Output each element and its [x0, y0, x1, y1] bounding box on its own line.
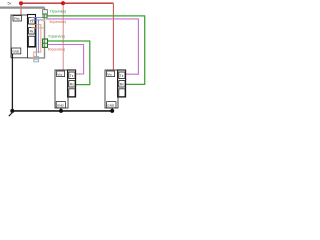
svg-text:Rx: Rx	[70, 83, 74, 87]
U1 pin column	[28, 15, 36, 48]
junction dot (63,3)	[61, 1, 65, 5]
svg-text:Tx: Tx	[70, 74, 74, 78]
wire orange Rx	[32, 25, 41, 60]
junction dot ground left	[10, 109, 14, 113]
pin box Pm (U1 power)	[13, 16, 22, 21]
module U2 body	[55, 70, 68, 108]
pin box empty (U1)	[29, 36, 35, 46]
wire grey bar net	[0, 6, 45, 8]
svg-text:5v(service): 5v(service)	[50, 20, 67, 24]
pin box empty (U2)	[69, 89, 75, 97]
pin box Rx (U3)	[119, 81, 125, 87]
pin box empty (U3)	[119, 89, 125, 97]
wire 5V drop to U3 Vin	[112, 3, 114, 70]
svg-text:Rx: Rx	[30, 30, 34, 34]
wire grey net down segment	[28, 8, 45, 58]
junction dot ground middle	[59, 109, 63, 113]
wire 5V drop to U2 Vcc	[62, 3, 64, 70]
connector J1 yellow pin nub	[43, 19, 46, 21]
svg-text:Rx(service): Rx(service)	[48, 47, 65, 51]
wire 5V top bus	[21, 2, 114, 4]
wire magenta net A	[46, 19, 138, 74]
module U3 body	[105, 70, 118, 108]
wire 5V drop to U1	[20, 3, 22, 15]
ground bus	[12, 110, 112, 112]
pin box Rx (U2)	[69, 81, 75, 87]
connector J1 green pin box	[43, 14, 47, 18]
wire purple	[32, 20, 45, 53]
pin box Tx (U3)	[119, 72, 125, 78]
wire blue Tx	[31, 18, 45, 57]
pin box Vcc (U2)	[57, 71, 65, 77]
pin box GND (U1)	[12, 48, 21, 54]
U3 pin column	[118, 70, 126, 97]
svg-text:Vin: Vin	[107, 73, 112, 77]
pin box Vin (U3)	[107, 71, 115, 77]
wire orange stub	[32, 27, 45, 29]
pin box Rx (U1)	[29, 28, 35, 34]
U2 pin column	[68, 70, 76, 97]
svg-text:Rx: Rx	[120, 83, 124, 87]
blue terminal box	[34, 57, 39, 62]
connector J1 grey pin box	[43, 10, 48, 15]
wire green net B	[48, 41, 90, 85]
svg-text:GND: GND	[12, 50, 20, 54]
wire U3 GND stub	[111, 108, 113, 111]
svg-text:Tx(service): Tx(service)	[50, 10, 67, 14]
svg-text:GND: GND	[57, 104, 65, 108]
connector J1 lower green pin boxes	[43, 39, 48, 47]
svg-text:Tx: Tx	[120, 74, 124, 78]
junction dot ground right	[110, 109, 114, 113]
svg-text:Pm: Pm	[14, 17, 19, 21]
svg-text:GND: GND	[107, 104, 115, 108]
wire green net A	[46, 16, 145, 85]
wire magenta net B	[48, 45, 84, 75]
wire U2 GND stub	[60, 108, 62, 111]
svg-text:5v: 5v	[8, 1, 12, 5]
pin box Tx (U2)	[69, 72, 75, 78]
pin box GND (U3)	[107, 102, 116, 108]
pin box GND (U2)	[56, 102, 65, 108]
module U1 body	[11, 15, 28, 58]
ground symbol tick	[9, 113, 13, 117]
svg-text:Tx(service): Tx(service)	[48, 35, 65, 39]
svg-text:Vcc: Vcc	[57, 73, 63, 77]
wire U1 GND drop	[11, 54, 13, 111]
pin box Tx (U1)	[29, 18, 35, 24]
junction dot (21,3)	[19, 1, 23, 5]
